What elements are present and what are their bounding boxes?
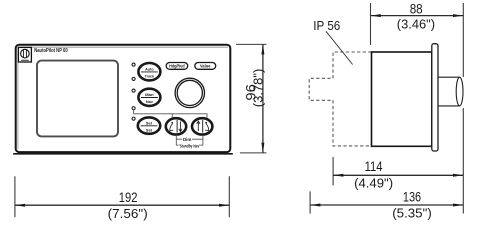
svg-text:(3.78"): (3.78")	[251, 69, 266, 108]
svg-text:Auto: Auto	[145, 66, 154, 71]
svg-text:Track: Track	[145, 73, 155, 78]
svg-text:136: 136	[403, 188, 421, 204]
svg-text:Man: Man	[145, 92, 154, 97]
svg-text:88: 88	[410, 0, 423, 16]
svg-text:Set: Set	[146, 120, 153, 125]
svg-text:(7.56"): (7.56")	[108, 206, 148, 221]
svg-text:(3.46"): (3.46")	[397, 17, 435, 32]
svg-text:Hdg/Rud: Hdg/Rud	[169, 64, 185, 69]
svg-text:(5.35"): (5.35")	[392, 206, 432, 221]
svg-text:Value: Value	[200, 64, 211, 69]
svg-text:Nav: Nav	[146, 99, 154, 104]
svg-text:(4.49"): (4.49")	[354, 176, 393, 191]
svg-text:"Standby Nav": "Standby Nav"	[178, 143, 201, 149]
svg-text:NautoPilot NP 60: NautoPilot NP 60	[34, 48, 67, 54]
svg-text:Dim: Dim	[183, 137, 192, 142]
svg-text:114: 114	[365, 158, 383, 174]
svg-text:Sel: Sel	[146, 127, 153, 132]
svg-text:192: 192	[119, 189, 138, 205]
svg-text:IP 56: IP 56	[313, 18, 340, 33]
